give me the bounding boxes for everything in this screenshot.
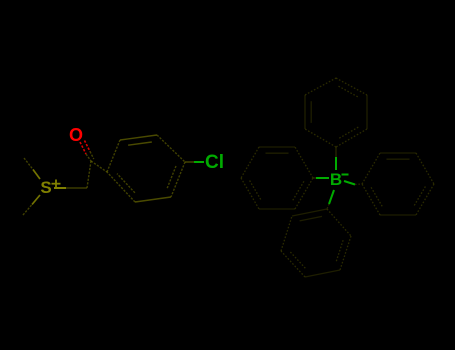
bond B-phenyl(bottom) olive half: [327, 204, 329, 209]
bond B-phenyl(top) green half: [335, 157, 337, 170]
bond B-phenyl(right) green half: [344, 181, 355, 185]
benzene ring (4-chlorophenyl): [107, 135, 185, 202]
svg-text:B: B: [330, 170, 342, 189]
phenyl ring (right) of borate: [362, 153, 434, 215]
plus charge on S: [52, 180, 61, 189]
bond B-phenyl(right) olive half: [355, 183, 362, 186]
phenyl ring (bottom) of borate: [281, 209, 351, 277]
bond CH2-C(=O): [87, 161, 91, 188]
methyl CH3 (lower) bond to S (outer dim half): [23, 205, 32, 216]
phenyl ring (left) of borate: [241, 147, 313, 209]
bond B-phenyl(left) green half: [316, 177, 329, 179]
bond B-phenyl(top) olive half: [335, 147, 337, 157]
minus charge on B: [342, 174, 349, 176]
bond S-CH2 (dim half): [66, 187, 87, 189]
methyl CH3 (upper) bond to S (outer dim half): [24, 158, 33, 170]
bond B-phenyl(left) olive half: [313, 177, 316, 179]
svg-text:Cl: Cl: [205, 152, 224, 173]
svg-text:S: S: [40, 178, 51, 197]
carbonyl C=O double bond: [80, 141, 94, 162]
bond ring-Cl (olive half): [185, 161, 194, 163]
methyl CH3 (lower) bond to S (bright half near S): [32, 195, 40, 205]
bond ring-Cl (green half): [194, 161, 204, 163]
svg-text:O: O: [69, 125, 83, 145]
bond B-phenyl(bottom) green half: [329, 190, 334, 204]
bond C(=O)-ring ipso: [91, 161, 107, 172]
bond S-CH2 (bright half near S): [54, 187, 66, 189]
phenyl ring (top) of borate: [305, 78, 367, 147]
methyl CH3 (upper) bond to S (bright half near S): [33, 170, 40, 180]
